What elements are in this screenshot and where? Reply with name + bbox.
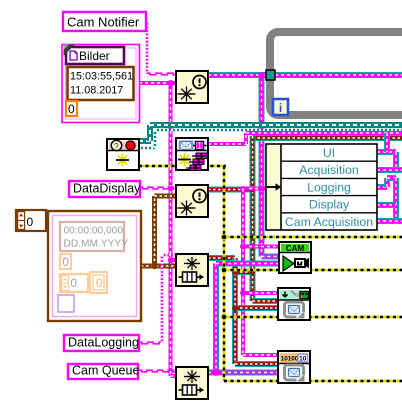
svg-text:0: 0 [63, 257, 69, 269]
svg-text:DataDisplay: DataDisplay [73, 182, 141, 196]
svg-text:0: 0 [71, 278, 77, 290]
svg-text:Bilder: Bilder [79, 49, 110, 63]
svg-text:15:03:55,561: 15:03:55,561 [70, 71, 133, 83]
svg-text:0: 0 [96, 278, 102, 290]
svg-text:i: i [279, 101, 282, 115]
svg-text:0: 0 [27, 215, 34, 229]
svg-text:10: 10 [299, 356, 307, 363]
svg-text:10100: 10100 [281, 356, 299, 363]
svg-text:?: ? [114, 141, 119, 151]
svg-text:00:00:00,000: 00:00:00,000 [64, 226, 124, 237]
svg-text:DataLogging: DataLogging [68, 336, 139, 350]
svg-text:UI: UI [323, 146, 335, 160]
svg-text:Cam Notifier: Cam Notifier [67, 15, 140, 30]
svg-text:11.08.2017: 11.08.2017 [70, 85, 123, 97]
svg-text:Cam Acquisition: Cam Acquisition [285, 215, 373, 229]
svg-text:Cam Queue: Cam Queue [72, 364, 139, 378]
svg-text:0: 0 [68, 102, 75, 116]
svg-text:Acquisition: Acquisition [299, 163, 359, 177]
svg-text:DD.MM.YYYY: DD.MM.YYYY [64, 239, 129, 250]
svg-text:Display: Display [309, 198, 350, 212]
svg-text:CAM: CAM [286, 244, 305, 253]
svg-text:Logging: Logging [307, 180, 351, 194]
